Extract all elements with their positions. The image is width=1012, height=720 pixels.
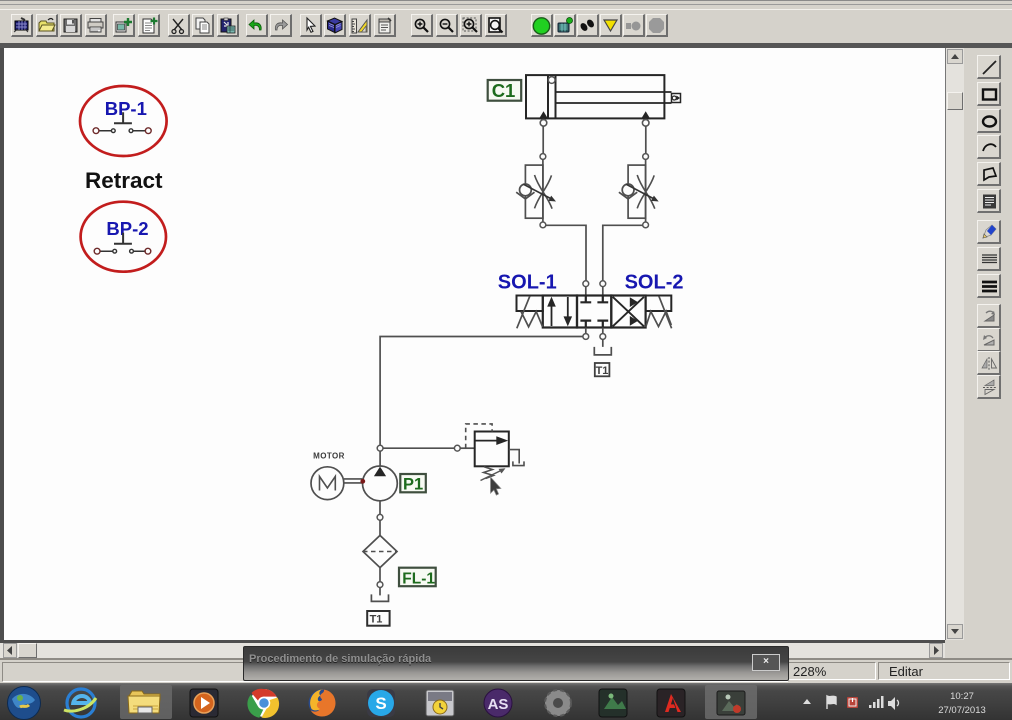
valve top port node B: [600, 281, 606, 296]
pushbutton BP-2: [81, 202, 166, 272]
cylinder port node left: [540, 120, 547, 127]
wire filter to tank: [379, 568, 381, 582]
valve bottom port node T: [600, 328, 606, 340]
label SOL-2: [625, 272, 684, 294]
relief valve pilot line: [466, 424, 492, 448]
svg-text:10:27: 10:27: [950, 691, 974, 702]
shaft motor-pump: [344, 479, 363, 483]
cylinder port node right: [642, 120, 649, 127]
svg-text:SOL-1: SOL-1: [498, 272, 557, 294]
relief valve adjust arrow: [481, 468, 506, 480]
wire pump to filter: [379, 501, 381, 515]
directional valve 4/3 body: [543, 296, 646, 328]
spring right: [646, 311, 672, 327]
label T1 filter: [367, 611, 389, 626]
valve bottom port node P: [583, 328, 589, 340]
label MOTOR: [313, 452, 345, 461]
svg-text:S: S: [375, 694, 386, 713]
tank symbol under filter: [371, 594, 388, 601]
svg-text:SOL-2: SOL-2: [625, 272, 684, 294]
wire FCV1 to valve port A: [546, 225, 586, 280]
valve center position blocked ports: [580, 296, 608, 327]
label FL-1: [399, 568, 436, 588]
svg-text:MOTOR: MOTOR: [313, 452, 345, 461]
node pump inlet: [377, 514, 383, 535]
label T1 valve: [595, 363, 610, 377]
relief valve body: [475, 432, 509, 467]
label C1: [488, 80, 522, 101]
wire FCV2 to valve port B: [603, 225, 643, 280]
wire pump to relief valve: [383, 447, 454, 449]
tank symbol under valve: [594, 339, 611, 355]
label SOL-1: [498, 272, 557, 294]
pushbutton BP-1: [80, 86, 167, 156]
pump P1: [360, 466, 397, 501]
cylinder C1: [526, 75, 681, 118]
filter FL-1: [363, 535, 397, 567]
motor M: [311, 467, 344, 500]
node filter outlet: [377, 582, 383, 596]
svg-text:C1: C1: [492, 80, 516, 101]
svg-text:P1: P1: [403, 476, 423, 494]
cylinder port arrow left: [539, 111, 549, 119]
wire cylinder left port to flow control left: [542, 126, 544, 153]
svg-text:Retract: Retract: [85, 168, 163, 193]
svg-text:BP-2: BP-2: [106, 218, 148, 239]
svg-text:AS: AS: [488, 696, 509, 713]
svg-text:27/07/2013: 27/07/2013: [938, 705, 986, 716]
svg-text:T1: T1: [370, 613, 383, 625]
flow control valve left FCV1: [516, 154, 556, 228]
relief valve drain to tank: [509, 450, 524, 466]
cylinder port arrow right: [641, 111, 651, 119]
spring left: [521, 312, 543, 327]
svg-text:T1: T1: [596, 365, 609, 377]
wire valve port P to pump: [380, 337, 583, 446]
wire cylinder right port to flow control right: [645, 126, 647, 153]
relief valve spring: [484, 467, 494, 479]
flow control valve right FCV2: [619, 154, 659, 228]
label Retract: [85, 168, 163, 193]
solenoid SOL-2: [646, 296, 672, 329]
svg-text:FL-1: FL-1: [402, 571, 435, 588]
label P1: [400, 474, 426, 494]
node pump outlet: [377, 445, 383, 466]
valve position 1 arrows: [547, 297, 572, 327]
valve top port node A: [583, 281, 589, 296]
solenoid SOL-1: [517, 296, 543, 329]
svg-text:BP-1: BP-1: [105, 98, 147, 119]
mouse cursor: [491, 477, 501, 495]
node relief branch: [454, 445, 474, 451]
valve position 3 crossed arrows: [613, 297, 644, 326]
